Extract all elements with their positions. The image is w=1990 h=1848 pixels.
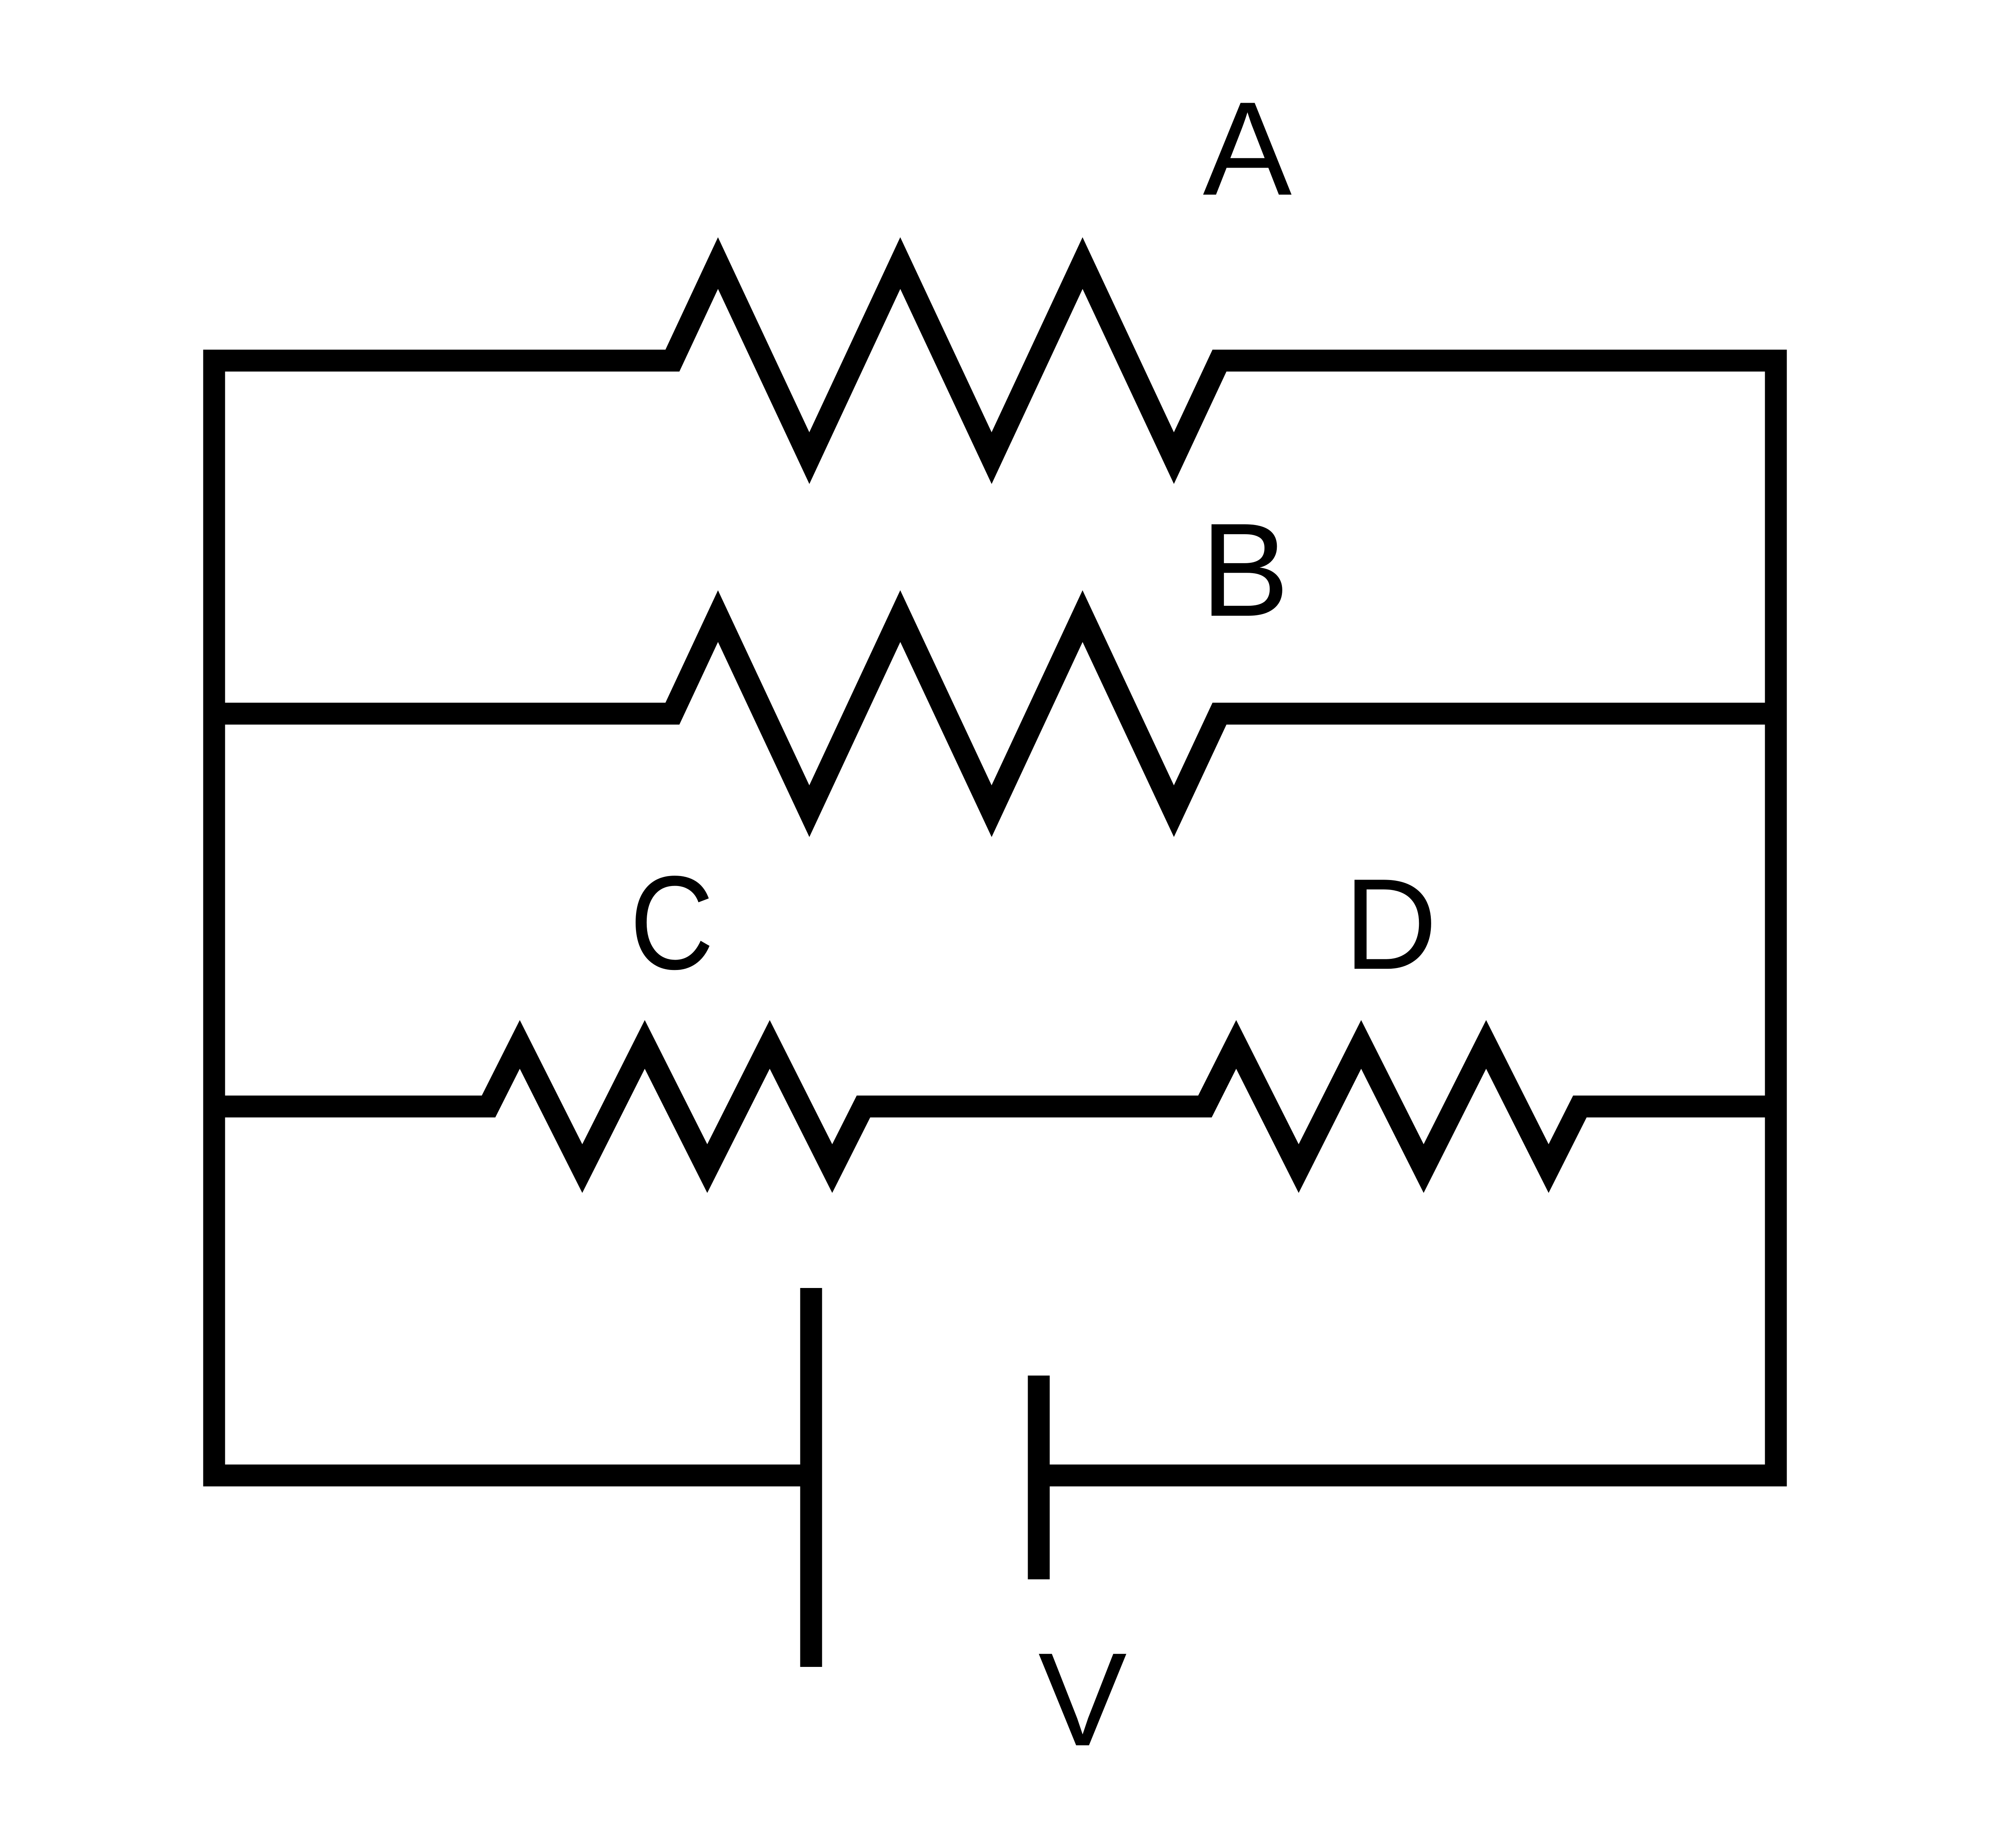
svg-text:C: C [630, 848, 714, 997]
wire: battery to bottom right [1039, 1465, 1787, 1487]
svg-text:A: A [1203, 74, 1292, 223]
wire: bottom left to battery [203, 1465, 812, 1487]
wire: right vertical side [1765, 350, 1787, 1487]
resistor C and resistor D (series branch with leads) [203, 1044, 1787, 1169]
svg-text:D: D [1344, 852, 1438, 996]
svg-text:B: B [1201, 496, 1290, 644]
battery V long plate (positive) [800, 1288, 822, 1667]
resistor B (middle branch with leads) [203, 616, 1787, 811]
svg-text:V: V [1038, 1625, 1128, 1774]
label C [630, 848, 714, 997]
battery V short plate (negative) [1028, 1376, 1050, 1579]
wire: left vertical side [203, 350, 225, 1487]
resistor A (top branch with leads) [203, 263, 1787, 458]
